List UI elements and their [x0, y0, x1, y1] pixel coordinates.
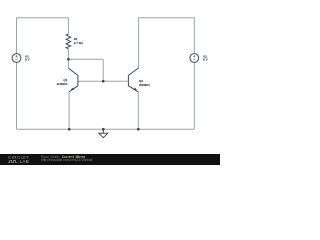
svg-text:2N3904: 2N3904 [139, 83, 150, 87]
label R1 4.7k [74, 37, 84, 45]
wire: Q1 collector stub [67, 59, 69, 68]
label V2 6V [203, 54, 209, 61]
wire: Q2 emitter down lead [137, 92, 139, 129]
wire: V1 top lead [16, 18, 18, 54]
wire: V1 bottom lead [16, 62, 18, 129]
wire: top-left rail (V1 to R1) [17, 17, 69, 19]
wire: V2 top lead [193, 18, 195, 54]
label V1 6V [25, 54, 31, 61]
wire: R1 bottom lead [67, 49, 69, 59]
ground symbol [99, 129, 108, 138]
wire: Q2 collector up lead [138, 18, 140, 68]
label Q2 2N3904 [139, 79, 150, 87]
svg-text:6 V: 6 V [203, 57, 209, 61]
wire: bottom ground rail [17, 128, 195, 130]
transistor Q2 (2N3904, NPN) [128, 68, 138, 92]
svg-text:6 V: 6 V [25, 57, 31, 61]
wire: base rail Q1 to Q2 [78, 80, 128, 82]
footer title text [41, 156, 93, 163]
svg-text:2N3904: 2N3904 [57, 82, 68, 86]
wire: R1 top lead [67, 18, 69, 34]
CircuitLab logo text LAB [20, 160, 30, 164]
junction dot: base rail tap [102, 80, 105, 83]
label Q1 2N3904 [57, 78, 68, 86]
junction dot: Q1 emitter at ground rail [68, 128, 71, 131]
footer bar [0, 154, 220, 165]
junction dot: ground stem at rail [102, 128, 105, 131]
CircuitLab logo text CIRCUIT [8, 156, 29, 160]
junction dot: Q2 emitter at ground rail [137, 128, 140, 131]
wire: top-right rail (Q2 to V2) [139, 17, 195, 19]
voltage source V1 [12, 54, 21, 63]
voltage source V2 [190, 54, 199, 63]
wire: V2 bottom lead [193, 62, 195, 129]
wire: Q1 emitter down lead [68, 92, 70, 129]
svg-text:4.7 kΩ: 4.7 kΩ [74, 41, 84, 45]
wire: middle drop to base rail [102, 59, 104, 81]
wire: collector node horizontal (R1 bottom to middle drop) [68, 58, 103, 60]
transistor Q1 (2N3904, mirrored NPN) [68, 68, 78, 92]
junction dot: R1/Q1 collector node [67, 58, 70, 61]
CircuitLab logo waveform [8, 160, 19, 163]
resistor R1 [66, 34, 71, 49]
